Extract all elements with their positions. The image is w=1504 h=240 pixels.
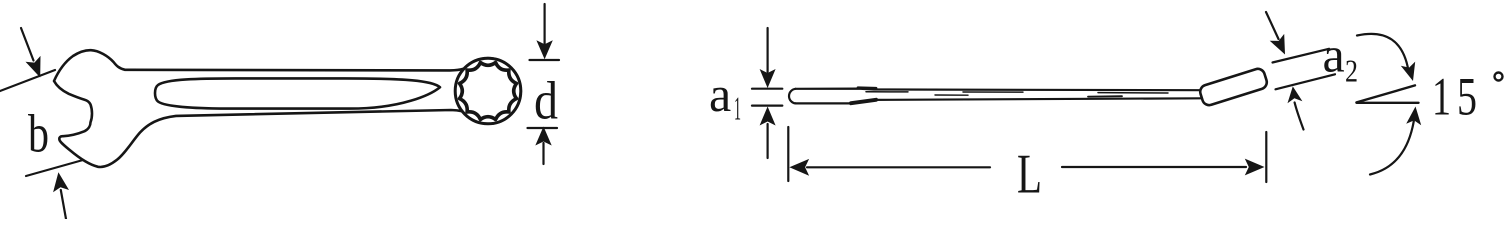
dimension a2 lower extension line — [1276, 74, 1336, 89]
svg-text:L: L — [1017, 144, 1042, 206]
scan noise dashes on bar — [866, 91, 1060, 93]
dimension a1 upper arrow line — [766, 28, 768, 72]
svg-text:a: a — [1323, 27, 1345, 83]
arrowhead b upper — [26, 56, 41, 78]
svg-text:b: b — [28, 104, 49, 164]
dimension L line right segment — [1062, 166, 1246, 168]
svg-text:a: a — [709, 66, 731, 122]
ring end 12-point bore — [460, 63, 517, 120]
side view bar top bump — [858, 86, 876, 89]
arrowhead a2 upper — [1270, 34, 1285, 55]
dimension d upper extension line — [530, 59, 560, 61]
svg-text:d: d — [534, 71, 558, 131]
dimension L right extension line — [1265, 132, 1267, 182]
arrowhead a2 lower — [1288, 86, 1303, 103]
degree symbol — [1495, 73, 1503, 81]
arrowhead L right — [1245, 159, 1265, 176]
dimension a1 lower extension line — [752, 104, 782, 106]
arrowhead L left — [789, 159, 809, 176]
dimension a1 upper extension line — [752, 88, 782, 90]
dimension b lower extension line — [26, 160, 83, 176]
dimension a2 upper arrow line — [1266, 12, 1279, 39]
arrowhead d lower — [535, 127, 551, 146]
dimension a2 lower arrow line — [1295, 103, 1304, 130]
wrench top-view outline — [54, 50, 521, 167]
dimension d lower extension line — [528, 127, 558, 129]
dimension a2 upper extension line — [1273, 49, 1330, 63]
arrowhead angle arc lower — [1406, 107, 1421, 126]
side view bar bottom edge right — [874, 98, 1203, 100]
ring end outer rim — [455, 58, 521, 124]
arrowhead a1 lower — [760, 107, 776, 126]
shank recess oval — [155, 78, 440, 108]
side view angled head — [1198, 67, 1268, 107]
svg-text:2: 2 — [1345, 53, 1358, 89]
arrowhead b lower — [53, 172, 69, 192]
side view bar bottom edge — [796, 102, 854, 104]
side view bar step wedge — [851, 100, 876, 103]
side view bar top edge — [796, 89, 1203, 91]
dimension b upper extension line — [0, 70, 55, 91]
dimension d lower arrow line — [542, 143, 544, 164]
svg-text:5: 5 — [1457, 67, 1477, 127]
angle 15 deg horizontal ray — [1357, 102, 1419, 104]
dimension b lower arrow line — [61, 190, 66, 219]
angle 15 deg inclined ray — [1357, 85, 1416, 102]
svg-text:1: 1 — [1432, 67, 1451, 127]
dimension b upper arrow line — [21, 28, 34, 61]
dimension L line left segment — [807, 166, 990, 168]
arrowhead d upper — [536, 40, 552, 59]
dimension a1 lower arrow line — [766, 124, 768, 158]
svg-text:1: 1 — [734, 91, 741, 128]
arrowhead a1 upper — [760, 69, 776, 88]
arrowhead angle arc upper — [1401, 62, 1415, 81]
angle arc upper — [1357, 34, 1409, 71]
dimension L left extension line — [787, 127, 789, 181]
side view bar left cap — [789, 89, 795, 104]
angle arc lower — [1370, 121, 1414, 175]
dimension d upper arrow line — [543, 4, 545, 44]
